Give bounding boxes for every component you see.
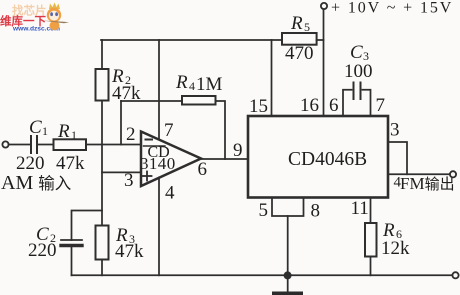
label R5 value 470 (285, 43, 314, 64)
capacitor C2 (61, 240, 82, 246)
svg-text:15: 15 (249, 96, 268, 117)
label FM 输出 (400, 174, 455, 193)
label R1 value 47k (56, 153, 85, 174)
svg-text:220: 220 (16, 153, 45, 174)
label R2 (111, 66, 131, 87)
svg-text:47k: 47k (115, 241, 144, 262)
svg-text:12k: 12k (381, 238, 410, 259)
wire C1 to R1 (37, 144, 54, 146)
label +10V ~ +15V (331, 0, 453, 17)
wire C2 to bottom rail (71, 247, 73, 275)
svg-text:C: C (350, 42, 363, 63)
label pin 6 (IC) (329, 95, 339, 116)
svg-text:3: 3 (124, 170, 134, 191)
svg-text:11: 11 (351, 198, 369, 219)
label pin 15 (249, 96, 268, 117)
label pin 4 (165, 183, 175, 204)
svg-text:220: 220 (28, 240, 57, 261)
label C2 (36, 224, 56, 245)
svg-text:C: C (29, 117, 42, 138)
wire bracket to bottom rail (287, 216, 289, 292)
IC U2 CD4046B (248, 116, 388, 198)
wire top rail to R2 (101, 40, 103, 69)
svg-text:7: 7 (164, 120, 174, 141)
label pin 3 (124, 170, 134, 191)
label R5 (290, 13, 310, 34)
bottom rail wire (72, 274, 453, 276)
wire pin 4 to FM output (388, 173, 450, 175)
svg-text:6: 6 (198, 159, 208, 180)
wire top rail (101, 39, 282, 41)
svg-text:9: 9 (233, 140, 243, 161)
label pin 5 (259, 200, 269, 221)
watermark logo (0, 3, 69, 33)
wire op-amp pin 4 to bottom rail (158, 178, 160, 276)
wire IC pin 11 to R6 (370, 198, 372, 224)
label R4 (175, 72, 223, 95)
resistor R4 (182, 96, 216, 105)
wire pin 3 loop (388, 142, 407, 174)
svg-text:7: 7 (376, 95, 386, 116)
label R1 (57, 121, 77, 142)
label C3 (350, 42, 369, 63)
wire feedback to R4 (121, 100, 182, 102)
label pin 7 (164, 120, 174, 141)
label R6 value 12k (381, 238, 410, 259)
label pin 4 (IC) (394, 175, 402, 191)
label R3 (115, 225, 135, 246)
svg-text:4: 4 (189, 79, 195, 93)
wire R2 to R3 column (101, 101, 103, 226)
label pin 3 (IC) (390, 120, 400, 141)
wire IC pin 15 to rail (271, 40, 273, 116)
wire input to C1 (9, 144, 30, 146)
resistor R3 (96, 226, 109, 260)
resistor R6 (365, 223, 377, 257)
wire op-amp pin 7 to rail (158, 40, 160, 140)
label C2 value 220 (28, 240, 57, 261)
label AM 输入 (1, 172, 71, 194)
wire supply vertical to pin 16 (323, 9, 325, 116)
svg-text:3140: 3140 (140, 154, 176, 173)
wire op-amp output to IC pin 9 (201, 158, 248, 160)
svg-text:5: 5 (304, 20, 310, 34)
svg-text:1: 1 (71, 128, 77, 142)
svg-text:6: 6 (329, 95, 339, 116)
input terminal AM (2, 141, 8, 147)
resistor R2 (96, 69, 109, 101)
FM output terminal (450, 171, 456, 177)
svg-text:1M: 1M (196, 74, 223, 95)
label pin 11 (351, 198, 369, 219)
svg-text:470: 470 (285, 43, 314, 64)
label pin 16 (300, 95, 319, 116)
svg-text:8: 8 (311, 201, 321, 222)
label R2 value 47k (112, 83, 141, 104)
op-amp U1 CD3140 (140, 132, 201, 187)
svg-text:CD4046B: CD4046B (288, 149, 367, 170)
bottom right terminal (452, 272, 458, 278)
label pin 2 (126, 124, 136, 145)
junction dot (284, 271, 292, 279)
wire feedback node up (120, 101, 122, 145)
label C3 value 100 (344, 61, 373, 82)
svg-text:R: R (57, 121, 70, 142)
svg-text:R: R (290, 13, 303, 34)
svg-text:FM输出: FM输出 (400, 174, 455, 193)
resistor R5 (282, 33, 317, 45)
ground (272, 292, 303, 295)
svg-text:100: 100 (344, 61, 373, 82)
wire pins 5 and 8 ground bracket (272, 198, 304, 217)
svg-text:3: 3 (390, 120, 400, 141)
label R3 value 47k (115, 241, 144, 262)
wire column to op-amp pin 3 (102, 171, 141, 173)
svg-text:R: R (175, 72, 188, 93)
resistor R1 (54, 139, 87, 150)
svg-text:1: 1 (42, 124, 48, 138)
label pin 9 (233, 140, 243, 161)
label pin 6 (198, 159, 208, 180)
wire R3 to bottom rail (101, 260, 103, 276)
label R6 (382, 220, 402, 241)
svg-text:5: 5 (259, 200, 269, 221)
label pin 7 (IC) (376, 95, 386, 116)
wire R4 to output node (216, 101, 226, 159)
wire R5 to supply (317, 39, 324, 41)
svg-text:+ 10V ~ + 15V: + 10V ~ + 15V (331, 0, 453, 17)
svg-text:47k: 47k (56, 153, 85, 174)
wire R1 to op-amp pin 2 (86, 144, 141, 146)
svg-text:AM 输入: AM 输入 (1, 172, 71, 194)
wire column to C2 (72, 211, 103, 241)
label C1 (29, 117, 48, 138)
svg-text:16: 16 (300, 95, 319, 116)
capacitor C3 with pin 6 and 7 stubs (343, 83, 371, 117)
supply terminal (321, 3, 327, 9)
capacitor C1 (31, 136, 37, 153)
label C1 value 220 (16, 153, 45, 174)
wire R6 to bottom rail (370, 257, 372, 276)
svg-text:2: 2 (126, 124, 136, 145)
label pin 8 (311, 201, 321, 222)
svg-text:4: 4 (165, 183, 175, 204)
